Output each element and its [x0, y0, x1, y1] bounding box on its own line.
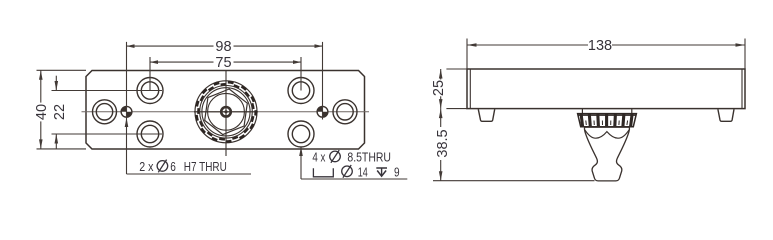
boss ticks: [581, 109, 583, 114]
leader 2 x Ø6 H7 THRU: [127, 173, 252, 175]
counterbore hole top-left: [137, 78, 163, 104]
depth symbol: [376, 168, 387, 176]
plate outline (top view): [86, 71, 365, 150]
Ø 14: [342, 166, 353, 177]
svg-text:14: 14: [358, 165, 368, 180]
svg-text:6: 6: [170, 159, 176, 174]
dimension 75: [150, 57, 301, 91]
dimension 98: [127, 42, 323, 174]
foot left: [478, 109, 494, 121]
svg-text:25: 25: [431, 80, 447, 96]
counterbore hole top-right: [288, 78, 314, 104]
dimension 138: [467, 39, 745, 70]
knob crosshair: [194, 111, 258, 113]
dimension 38.5: [433, 109, 595, 181]
svg-text:2 x: 2 x: [139, 159, 154, 174]
svg-text:22: 22: [52, 104, 68, 120]
svg-text:H7 THRU: H7 THRU: [184, 159, 227, 174]
dowel hole right Ø6 H7 (quadrant dot): [317, 106, 328, 117]
grip body outline: [585, 127, 630, 181]
right end hole: [333, 100, 357, 124]
dowel hole left Ø6 H7 (quadrant dot): [121, 106, 132, 117]
svg-text:8.5THRU: 8.5THRU: [347, 150, 391, 165]
svg-text:38.5: 38.5: [435, 129, 451, 157]
knob side view: [578, 109, 637, 181]
counterbore hole bottom-left: [137, 121, 163, 147]
horizontal centerline: [82, 111, 370, 113]
svg-text:4 x: 4 x: [312, 150, 325, 165]
knob vertical centerline: [225, 70, 227, 156]
side view right end line: [741, 69, 743, 109]
svg-text:9: 9: [394, 165, 400, 180]
knurled ring: [578, 114, 637, 127]
scallop wave: [585, 130, 629, 138]
svg-text:138: 138: [588, 38, 612, 54]
left end hole: [93, 100, 117, 124]
svg-text:40: 40: [34, 104, 50, 120]
dimension 25: [441, 69, 467, 109]
side view left end line: [469, 69, 471, 109]
knurl ribs: [581, 114, 632, 127]
side view plate body: [467, 69, 745, 109]
svg-text:75: 75: [215, 55, 231, 71]
foot right: [718, 109, 734, 121]
counterbore hole bottom-right: [288, 121, 314, 147]
leader 4 x Ø8.5 counterbore: [301, 147, 407, 180]
knurl gap ticks: [586, 121, 628, 126]
dimension 40: [37, 70, 87, 149]
counterbore symbol: [313, 168, 333, 177]
knob top view (knurled clamp knob): [195, 81, 257, 143]
svg-text:98: 98: [215, 39, 231, 55]
dimension 22: [52, 76, 163, 149]
